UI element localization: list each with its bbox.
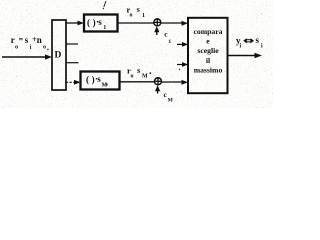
node r0 input label <box>11 34 46 51</box>
svg-text:r: r <box>11 35 15 45</box>
wire adder1 to comparator <box>161 22 184 24</box>
svg-text:compara: compara <box>193 27 222 36</box>
svg-text:e: e <box>206 37 210 46</box>
wire output arrow <box>227 55 258 57</box>
wire input arrow <box>2 56 48 58</box>
svg-text:n: n <box>37 35 42 45</box>
wire stub upper-middle from D <box>66 43 78 45</box>
svg-text:s: s <box>97 74 101 84</box>
svg-text:o: o <box>15 45 18 51</box>
wire multiplierM to adderM <box>120 81 155 83</box>
svg-text:sceglie: sceglie <box>197 46 219 55</box>
node r0·sM label <box>127 65 148 80</box>
node output label yi <=> si <box>236 35 263 50</box>
svg-text:(: ( <box>86 75 89 85</box>
svg-text:il: il <box>206 56 210 65</box>
wire adderM to comparator <box>162 81 184 83</box>
svg-text:M: M <box>142 74 148 80</box>
svg-text:1: 1 <box>142 13 145 19</box>
wire D to multiplier 1 <box>66 22 80 24</box>
svg-text:massimo: massimo <box>194 65 223 74</box>
node r0·s1 label <box>127 4 146 19</box>
block comparator <box>188 18 228 93</box>
block D <box>52 20 66 90</box>
wire stub into comparator (lower middle) <box>177 64 185 66</box>
svg-text:=: = <box>19 35 24 44</box>
op adder1 circle-plus <box>154 19 161 26</box>
node double-arrow glyph of output label <box>243 38 254 43</box>
svg-text:M: M <box>168 98 174 104</box>
wire stub lower-middle from D <box>66 62 79 64</box>
wire stub into comparator (upper middle) <box>177 43 185 45</box>
node cM label <box>164 90 174 104</box>
svg-text:o: o <box>131 74 134 80</box>
svg-text:o: o <box>43 45 46 51</box>
wire D to multiplier M (dashed scan look) <box>66 81 77 83</box>
svg-text:s: s <box>98 17 102 27</box>
svg-text:1: 1 <box>103 25 106 31</box>
svg-text:1: 1 <box>168 39 171 45</box>
svg-text:s: s <box>25 35 29 45</box>
wire c1 up-arrow into adder1 <box>156 29 158 36</box>
node c1 label <box>164 30 171 45</box>
svg-text:(: ( <box>87 17 90 27</box>
svg-text:D: D <box>55 51 62 61</box>
wire multiplier1 to adder1 <box>118 22 154 24</box>
stray mark <box>104 1 106 7</box>
svg-text:s: s <box>256 35 260 45</box>
svg-text:o: o <box>130 13 133 19</box>
op adderM circle-plus <box>155 78 162 85</box>
block multiplier ( )·sM <box>81 72 120 90</box>
wire cM up-arrow into adderM <box>157 88 159 94</box>
svg-text:o: o <box>106 82 108 87</box>
block multiplier ( )·s1 <box>84 15 118 32</box>
